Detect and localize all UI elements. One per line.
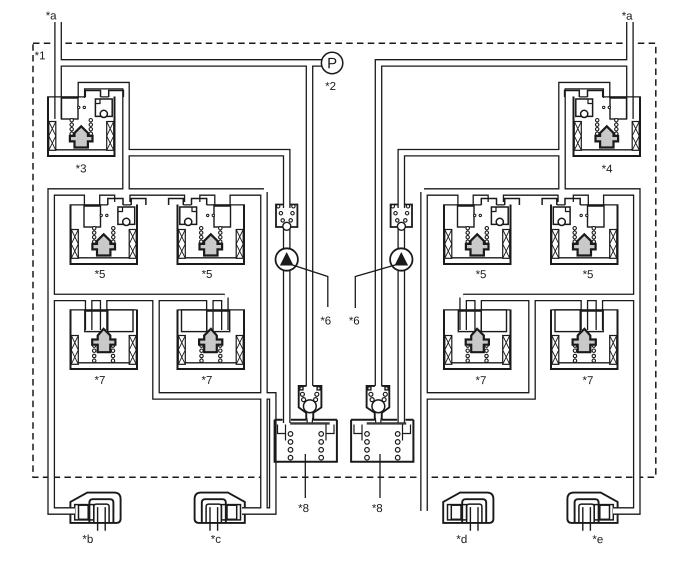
svg-text:*6: *6	[349, 316, 360, 328]
svg-text:*7: *7	[95, 375, 106, 387]
svg-text:*c: *c	[211, 534, 221, 546]
svg-text:*8: *8	[372, 503, 383, 515]
svg-text:*7: *7	[202, 375, 213, 387]
svg-text:*a: *a	[46, 10, 57, 22]
svg-text:*e: *e	[592, 534, 603, 546]
svg-text:*3: *3	[76, 163, 87, 175]
svg-text:*7: *7	[583, 375, 594, 387]
svg-text:*d: *d	[456, 534, 467, 546]
svg-text:*6: *6	[320, 315, 331, 327]
svg-text:*5: *5	[95, 269, 106, 281]
svg-text:*8: *8	[298, 503, 309, 515]
svg-text:P: P	[327, 55, 337, 72]
svg-text:*7: *7	[476, 375, 487, 387]
svg-text:*5: *5	[202, 269, 213, 281]
svg-text:*b: *b	[82, 534, 93, 546]
svg-text:*4: *4	[602, 164, 613, 176]
svg-text:*1: *1	[35, 50, 46, 62]
svg-text:*5: *5	[476, 269, 487, 281]
svg-text:*2: *2	[325, 81, 336, 93]
svg-text:*5: *5	[583, 269, 594, 281]
svg-text:*a: *a	[622, 11, 633, 23]
